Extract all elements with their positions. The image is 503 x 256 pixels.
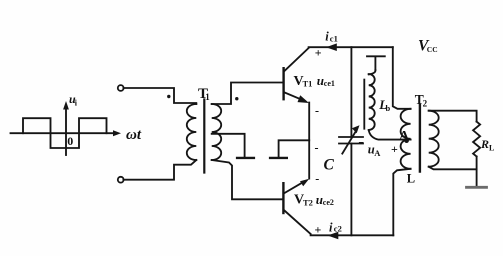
svg-text:+: + <box>315 45 322 59</box>
svg-text:T2: T2 <box>303 197 313 207</box>
svg-text:0: 0 <box>67 134 73 148</box>
svg-text:+: + <box>391 142 398 156</box>
svg-text:-: - <box>315 104 319 118</box>
svg-text:CC: CC <box>427 45 438 54</box>
svg-text:A: A <box>374 148 381 158</box>
svg-text:+: + <box>315 222 322 236</box>
svg-text:i: i <box>329 220 333 234</box>
svg-text:ce2: ce2 <box>323 198 334 207</box>
svg-text:R: R <box>480 137 489 151</box>
svg-text:i: i <box>75 99 78 108</box>
svg-text:c2: c2 <box>334 223 342 233</box>
svg-text:ce1: ce1 <box>324 79 335 88</box>
svg-text:L: L <box>407 171 415 185</box>
svg-text:1: 1 <box>205 92 210 102</box>
svg-text:c1: c1 <box>330 33 338 43</box>
svg-text:ωt: ωt <box>126 127 142 143</box>
svg-text:-: - <box>315 171 319 185</box>
svg-text:A: A <box>399 129 410 144</box>
svg-text:b: b <box>386 103 391 113</box>
svg-text:T1: T1 <box>303 79 313 89</box>
svg-text:-: - <box>315 141 319 155</box>
svg-text:i: i <box>325 30 329 44</box>
svg-text:L: L <box>489 143 494 152</box>
svg-text:C: C <box>324 157 335 174</box>
svg-text:2: 2 <box>423 99 428 109</box>
